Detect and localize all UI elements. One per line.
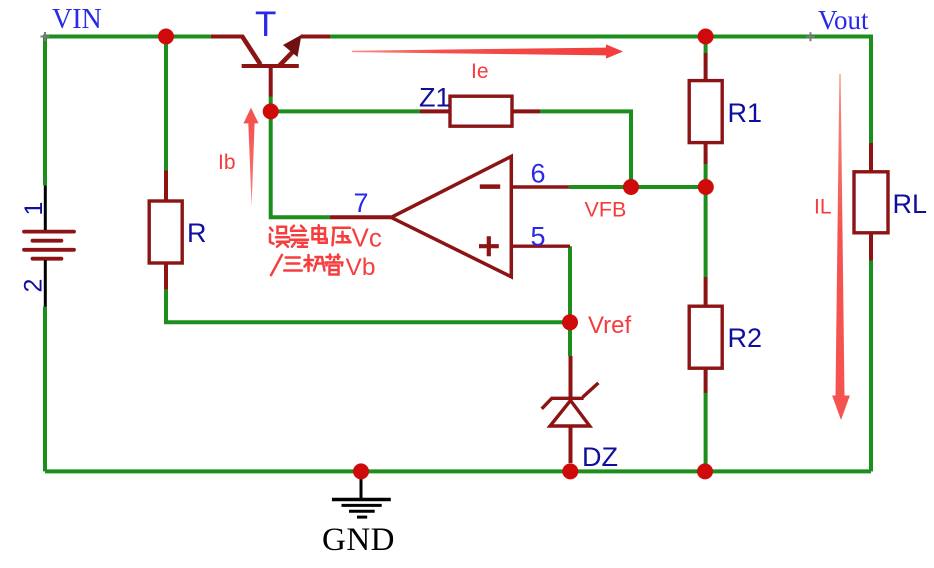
wire Vref node down to DZ (568, 322, 572, 356)
svg-text:VIN: VIN (52, 4, 102, 35)
ground (332, 471, 391, 517)
op-amp U1 (330, 156, 570, 276)
wire top rail right (transistor to Vout corner) (330, 35, 871, 39)
node Vout/R1 junction (698, 29, 714, 45)
svg-text:DZ: DZ (582, 442, 618, 472)
svg-text:Vout: Vout (818, 5, 869, 35)
wire Z1 right to VFB node (540, 109, 631, 187)
wire right vertical lower (RL to bottom rail) (869, 260, 873, 471)
resistor RL (854, 143, 927, 261)
svg-text:5: 5 (531, 222, 546, 252)
wire Vref rail (R bottom to Vref node) (164, 290, 570, 323)
svg-text:T: T (255, 5, 276, 44)
resistor R1 (689, 53, 762, 164)
svg-text:RL: RL (893, 189, 928, 219)
battery BT (cell stack) (24, 232, 74, 259)
transistor T (211, 36, 330, 97)
transistor T emitter arrowhead (283, 35, 302, 57)
svg-text:7: 7 (354, 188, 369, 218)
wire left vertical lower (battery to bottom rail) (43, 307, 47, 472)
grid marker cross top-left (41, 32, 50, 41)
current arrow IL (836, 74, 845, 396)
svg-text:Ie: Ie (471, 60, 489, 83)
wire bottom rail (45, 469, 871, 473)
node transistor base junction (263, 103, 279, 119)
node VIN/R junction (158, 29, 174, 45)
wire VIN node down to resistor R (164, 37, 168, 171)
node DZ bottom junction (562, 463, 578, 479)
node R2 bottom junction (697, 463, 713, 479)
annotation line 1: error voltage Vc (Chinese) (270, 225, 351, 247)
annotation line 2: transistor Vb (Chinese) (284, 255, 342, 275)
current arrow Ie (352, 48, 606, 56)
resistor R2 (689, 277, 762, 393)
svg-text:IL: IL (814, 196, 832, 219)
wire transistor base down and to op-amp output (269, 96, 330, 218)
wire base node to Z1 left (271, 109, 420, 113)
svg-text:Vc: Vc (352, 223, 382, 253)
svg-text:1: 1 (20, 202, 48, 216)
resistor Z1 (419, 83, 540, 127)
wire R2 bottom to bottom rail (704, 392, 708, 471)
svg-text:R1: R1 (728, 98, 763, 128)
svg-text:Vref: Vref (588, 312, 631, 339)
wire R1 bottom node down to R2 (704, 163, 708, 277)
svg-text:R2: R2 (728, 323, 763, 353)
svg-text:GND: GND (322, 522, 395, 558)
wire op-amp plus pin down to Vref node (568, 246, 572, 322)
wire right vertical upper (Vout to RL) (869, 35, 873, 145)
node Vref (562, 314, 578, 330)
svg-text:VFB: VFB (585, 198, 627, 222)
node VFB (623, 179, 639, 195)
wire op-amp minus pin to VFB node (569, 185, 631, 189)
svg-text:Ib: Ib (218, 151, 236, 174)
battery lead pin 1 (black) (44, 185, 47, 230)
grid marker cross top-right (806, 32, 815, 41)
node R1/R2 junction (698, 179, 714, 195)
svg-text:R: R (187, 218, 207, 248)
svg-text:Vb: Vb (346, 254, 376, 281)
node GND junction (353, 463, 369, 479)
wire top rail left (VIN to transistor) (45, 35, 211, 39)
resistor R (149, 171, 206, 290)
wire VFB node to R1/R2 node (631, 185, 706, 189)
wire left vertical upper (VIN down to battery) (43, 35, 47, 186)
svg-text:6: 6 (531, 159, 546, 189)
zener diode DZ (542, 356, 599, 463)
svg-text:Z1: Z1 (419, 83, 451, 113)
svg-text:2: 2 (20, 279, 48, 293)
wire R1 top stub green (704, 37, 708, 55)
battery lead pin 2 (black) (44, 260, 47, 307)
current arrow Ib (248, 123, 254, 206)
